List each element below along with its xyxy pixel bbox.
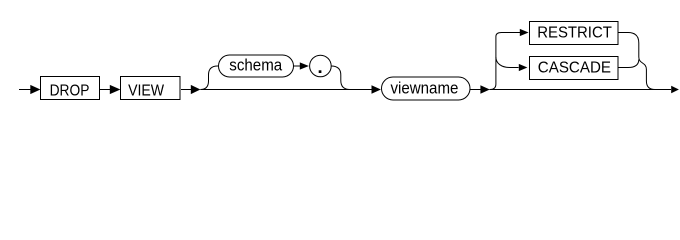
svg-text:viewname: viewname (391, 80, 459, 98)
wire turn into RESTRICT rail (496, 33, 520, 37)
svg-text:VIEW: VIEW (128, 82, 165, 99)
railroad syntax diagram: DROP VIEW [schema .] viewname [RESTRICT|CASCADE] (0, 0, 680, 111)
svg-text:CASCADE: CASCADE (538, 60, 611, 77)
wire CASCADE exit up-merge (618, 60, 639, 68)
box CASCADE (530, 57, 619, 80)
wire VIEW to split1 (181, 89, 192, 91)
capsule viewname (382, 77, 471, 100)
arrowhead into VIEW (110, 85, 121, 94)
arrowhead into CASCADE (519, 64, 528, 71)
wire curve up from split1 to schema rail (200, 66, 218, 90)
arrowhead into viewname (372, 85, 381, 94)
wire RESTRICT exit down (618, 33, 639, 58)
arrowhead into dot circle (300, 62, 309, 69)
wire branch from vertical to CASCADE rail (496, 57, 519, 68)
arrowhead into RESTRICT (520, 29, 529, 36)
wire start to DROP (19, 89, 32, 91)
wire DROP to VIEW (100, 89, 112, 91)
box DROP (41, 77, 100, 100)
arrowhead into DROP (30, 85, 40, 94)
wire main bypass under restrict/cascade to end (490, 89, 671, 91)
arrowhead diagram end (671, 86, 679, 93)
svg-text:DROP: DROP (50, 82, 90, 99)
wire curve down from dot circle to main rail (331, 66, 350, 90)
wire curve up from split2 (490, 37, 496, 90)
svg-text:schema: schema (229, 57, 282, 75)
arrowhead at split2 (480, 85, 489, 94)
wire main bypass under schema loop (200, 89, 372, 91)
arrowhead at split1 (191, 85, 201, 94)
box VIEW (121, 77, 181, 100)
wire merged descent to main rail (639, 57, 655, 90)
wire viewname to split2 (470, 89, 481, 91)
label dot (319, 70, 322, 73)
wire schema capsule to dot circle (294, 65, 302, 67)
capsule schema (219, 55, 294, 77)
box RESTRICT (530, 22, 619, 45)
circle dot separator (310, 55, 332, 77)
svg-text:RESTRICT: RESTRICT (537, 24, 612, 41)
